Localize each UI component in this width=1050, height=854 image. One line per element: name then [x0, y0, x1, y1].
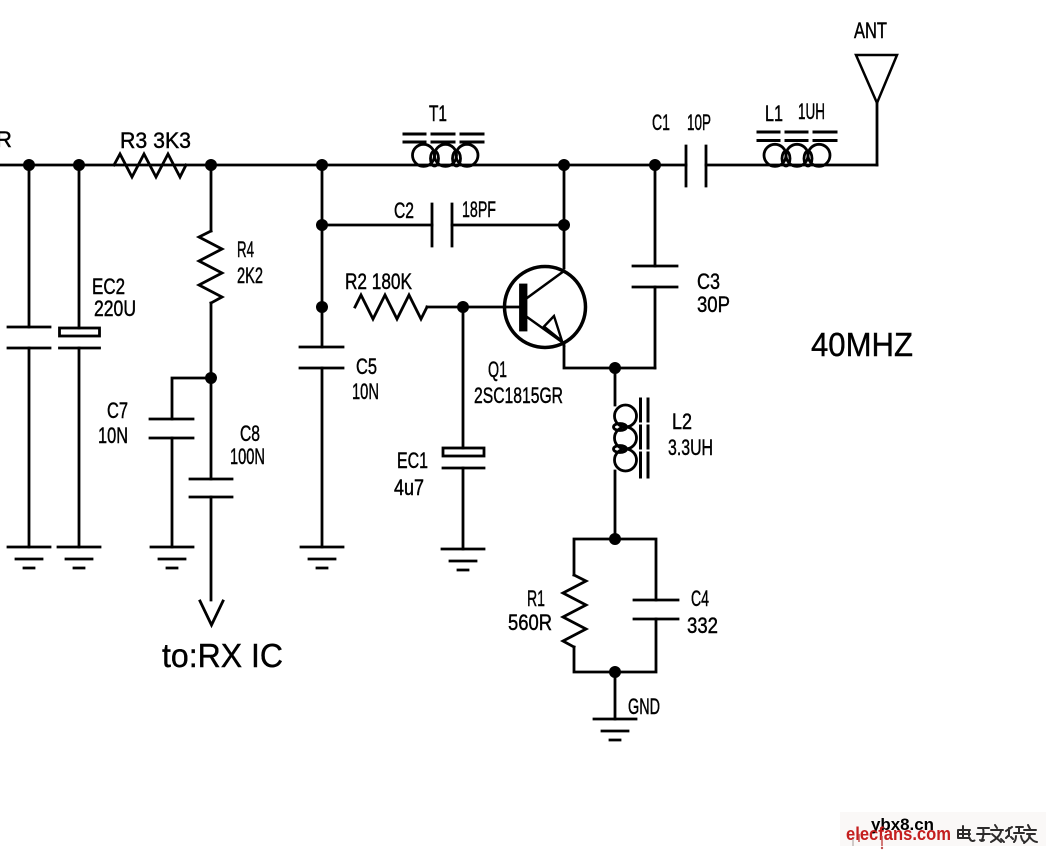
wire L2 branch — [614, 368, 617, 539]
svg-text:Q1: Q1 — [488, 357, 507, 382]
char fa — [991, 825, 1004, 842]
junction supply rail / C3 C1 — [649, 159, 661, 171]
junction supply rail / EC2 — [73, 159, 85, 171]
svg-text:R3 3K3: R3 3K3 — [120, 128, 191, 153]
junction emitter / L2 — [609, 362, 621, 374]
svg-text:R4: R4 — [237, 237, 254, 262]
node watermark — [840, 812, 1046, 849]
wire C8 to arrow — [210, 497, 213, 600]
transformer T1 coil — [413, 144, 435, 166]
junction R2 left — [316, 301, 328, 313]
svg-text:C4: C4 — [691, 586, 709, 611]
wire EC2 branch — [78, 165, 81, 547]
svg-text:30P: 30P — [697, 292, 730, 317]
svg-text:2K2: 2K2 — [237, 263, 263, 288]
capacitor C7 — [150, 419, 193, 438]
wire R4 branch top — [210, 165, 213, 231]
svg-text:10N: 10N — [352, 379, 379, 404]
wire GND drop — [614, 672, 617, 719]
wire C5 to ground — [321, 368, 324, 547]
wire main horizontal rail — [0, 164, 877, 167]
svg-text:to:RX IC: to:RX IC — [162, 637, 283, 674]
junction supply rail / R4 — [205, 159, 217, 171]
svg-text:EC1: EC1 — [397, 448, 428, 473]
node to RX IC arrow — [200, 601, 223, 625]
svg-text:C1: C1 — [652, 110, 670, 135]
ground — [151, 547, 193, 568]
svg-text:332: 332 — [687, 613, 718, 638]
capacitor unlabeled left — [8, 327, 50, 348]
junction supply rail / collector — [558, 159, 570, 171]
svg-text:18PF: 18PF — [462, 197, 496, 222]
inductor L1 coil — [764, 144, 786, 166]
svg-text:L2: L2 — [672, 409, 692, 434]
ground — [58, 547, 100, 568]
svg-text:4u7: 4u7 — [394, 475, 424, 500]
junction base / EC1 — [457, 301, 469, 313]
svg-text:GND: GND — [628, 694, 660, 719]
wire C7 stub — [172, 378, 211, 419]
wire C3 branch — [654, 165, 657, 368]
junction L2 / R1 C4 top — [609, 533, 621, 545]
ground — [301, 547, 343, 568]
svg-text:T1: T1 — [429, 101, 447, 126]
wire R4 to C8 — [210, 303, 213, 479]
wire collector branch — [563, 165, 566, 268]
wire antenna drop — [876, 103, 879, 165]
junction C2 left — [316, 219, 328, 231]
ground — [442, 549, 484, 570]
svg-text:100N: 100N — [230, 444, 265, 469]
wire R2 row — [427, 306, 521, 309]
capacitor C3 — [633, 266, 677, 287]
svg-text:10P: 10P — [687, 110, 711, 135]
capacitor C2 — [432, 204, 452, 246]
node left branch wire — [28, 165, 31, 547]
inductor L2 core — [641, 399, 649, 477]
capacitor C1 — [686, 146, 706, 186]
resistor R3 — [114, 154, 186, 177]
capacitor EC1 — [443, 448, 484, 456]
junction R1 C4 bottom / GND — [609, 666, 621, 678]
char you — [1024, 825, 1037, 843]
svg-text:elecfans.com: elecfans.com — [846, 824, 951, 844]
junction supply rail / bias branch — [316, 159, 328, 171]
junction C2 right / collector — [558, 219, 570, 231]
ground GND — [594, 719, 636, 740]
watermark red drips — [859, 834, 882, 846]
svg-text:C5: C5 — [356, 354, 377, 379]
capacitor C4 — [634, 600, 678, 619]
capacitor C5 — [300, 347, 343, 368]
antenna ANT — [856, 55, 897, 103]
inductor L1 core — [758, 132, 836, 141]
svg-text:560R: 560R — [508, 610, 552, 635]
inductor L2 coil — [615, 405, 637, 427]
wire C2 row — [322, 224, 564, 227]
capacitor C8 — [190, 479, 232, 497]
svg-text:C3: C3 — [697, 269, 720, 294]
transistor Q1 — [505, 267, 586, 348]
svg-text:ANT: ANT — [854, 18, 887, 43]
resistor R1 — [563, 575, 586, 647]
char shao — [1006, 827, 1025, 842]
svg-text:R2 180K: R2 180K — [345, 269, 412, 294]
wire bias branch x322 — [321, 165, 324, 347]
svg-text:40MHZ: 40MHZ — [811, 326, 913, 363]
resistor R4 — [199, 231, 222, 303]
char dian — [958, 826, 975, 841]
svg-text:R: R — [0, 127, 12, 152]
wire C7 to ground — [171, 438, 174, 547]
svg-text:C2: C2 — [394, 198, 414, 223]
svg-text:L1: L1 — [765, 101, 783, 126]
watermark gray drip — [852, 839, 854, 846]
wire EC1 branch — [462, 307, 465, 549]
junction R4 / C7 stub — [205, 372, 217, 384]
resistor R2 — [355, 295, 427, 319]
ground — [8, 547, 50, 568]
svg-text:2SC1815GR: 2SC1815GR — [474, 383, 563, 408]
svg-text:220U: 220U — [94, 296, 136, 321]
svg-text:C7: C7 — [107, 398, 128, 423]
capacitor EC2 — [60, 328, 100, 336]
svg-text:R1: R1 — [527, 586, 545, 611]
wire emitter rail — [564, 345, 655, 368]
wire R1 C4 tank — [574, 539, 656, 672]
junction supply rail / left cap — [23, 159, 35, 171]
transformer T1 core — [404, 134, 483, 142]
char zi — [977, 828, 990, 841]
svg-text:1UH: 1UH — [798, 99, 825, 124]
watermark background — [840, 812, 1046, 846]
svg-text:C8: C8 — [240, 421, 260, 446]
svg-text:3.3UH: 3.3UH — [668, 435, 713, 460]
svg-text:10N: 10N — [98, 423, 128, 448]
